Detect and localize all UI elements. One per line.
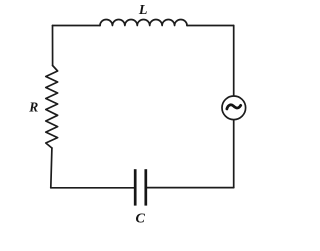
capacitor C1 right plate	[144, 169, 147, 205]
wire bottom-right segment	[147, 187, 234, 189]
wire top-left segment	[53, 25, 101, 27]
wire right lower	[233, 120, 235, 188]
svg-text:C: C	[136, 212, 146, 227]
wire top-right segment	[187, 25, 234, 27]
wire right upper	[233, 26, 235, 97]
svg-text:R: R	[28, 99, 38, 114]
ac source V1 tilde	[227, 105, 241, 109]
wire left upper	[52, 26, 54, 66]
wire left lower	[51, 148, 52, 188]
capacitor C1 left plate	[134, 169, 137, 205]
svg-text:L: L	[138, 3, 148, 18]
inductor L1 coil	[100, 19, 187, 25]
ac source V1 circle	[222, 96, 246, 120]
wire bottom-left segment	[51, 187, 134, 189]
resistor R1	[46, 66, 58, 149]
